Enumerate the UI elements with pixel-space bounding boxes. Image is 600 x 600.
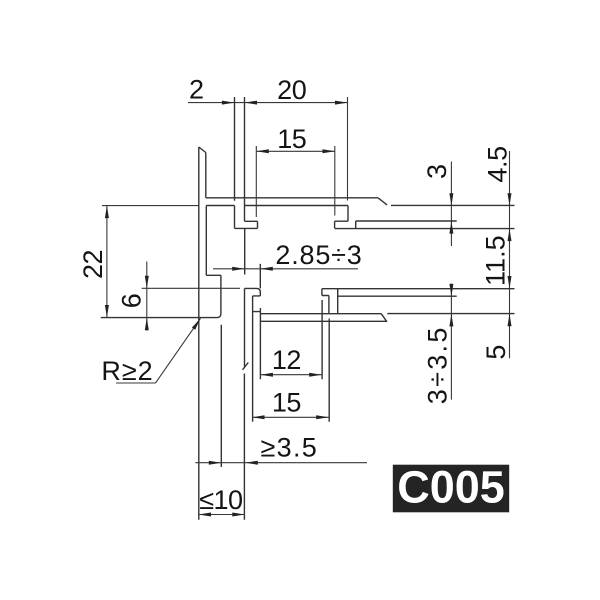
svg-text:≥3.5: ≥3.5 (261, 433, 319, 463)
svg-text:12: 12 (272, 345, 301, 375)
svg-text:6: 6 (117, 294, 147, 309)
svg-text:22: 22 (78, 250, 108, 279)
svg-text:20: 20 (277, 75, 306, 105)
svg-text:2.85÷3: 2.85÷3 (275, 240, 362, 270)
svg-text:2: 2 (189, 75, 204, 105)
svg-text:11.5: 11.5 (481, 235, 511, 286)
svg-text:15: 15 (277, 124, 306, 154)
svg-text:3÷3.5: 3÷3.5 (423, 325, 453, 404)
svg-text:C005: C005 (397, 461, 505, 512)
svg-text:≤10: ≤10 (199, 485, 242, 515)
svg-text:4.5: 4.5 (482, 146, 512, 182)
svg-text:3: 3 (422, 164, 452, 179)
svg-text:R≥2: R≥2 (101, 356, 153, 386)
svg-text:5: 5 (481, 345, 511, 360)
svg-text:15: 15 (272, 388, 301, 418)
